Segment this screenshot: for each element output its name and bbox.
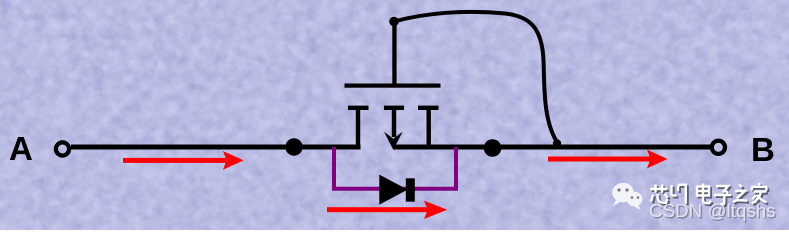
gate bar	[345, 84, 441, 88]
svg-text:B: B	[751, 131, 775, 168]
wire MOSFET drain to B	[393, 145, 711, 150]
current arrow left	[123, 151, 244, 170]
channel bar left	[348, 106, 369, 110]
node junction dot right	[484, 139, 502, 157]
terminal B open circle	[712, 141, 725, 154]
body stub with arrow	[392, 108, 396, 137]
gate-drain connection dot	[553, 139, 561, 147]
gate node dot	[389, 17, 399, 27]
current arrow right	[548, 150, 668, 169]
diode D1 cathode bar	[406, 178, 415, 201]
gate lead	[392, 22, 396, 86]
channel bar middle	[384, 106, 404, 110]
source stub	[356, 108, 360, 147]
node junction dot left	[285, 138, 302, 155]
terminal A open circle	[56, 142, 69, 155]
svg-text:A: A	[9, 130, 33, 167]
diode D1 anode triangle	[379, 175, 407, 205]
drain stub	[427, 108, 431, 147]
current arrow bottom	[327, 201, 447, 219]
gate-to-drain wire (curved)	[394, 12, 557, 142]
body-diode loop wire (purple)	[334, 147, 456, 189]
watermark wechat logo	[612, 183, 642, 210]
channel bar right	[418, 106, 439, 110]
watermark text: 芯片电子之家 (drawn strokes)	[652, 185, 769, 206]
wire A to MOSFET source	[71, 145, 361, 150]
svg-text:CSDN @ltqshs: CSDN @ltqshs	[649, 200, 776, 221]
transistor Q1 (N-MOSFET)	[345, 17, 441, 150]
